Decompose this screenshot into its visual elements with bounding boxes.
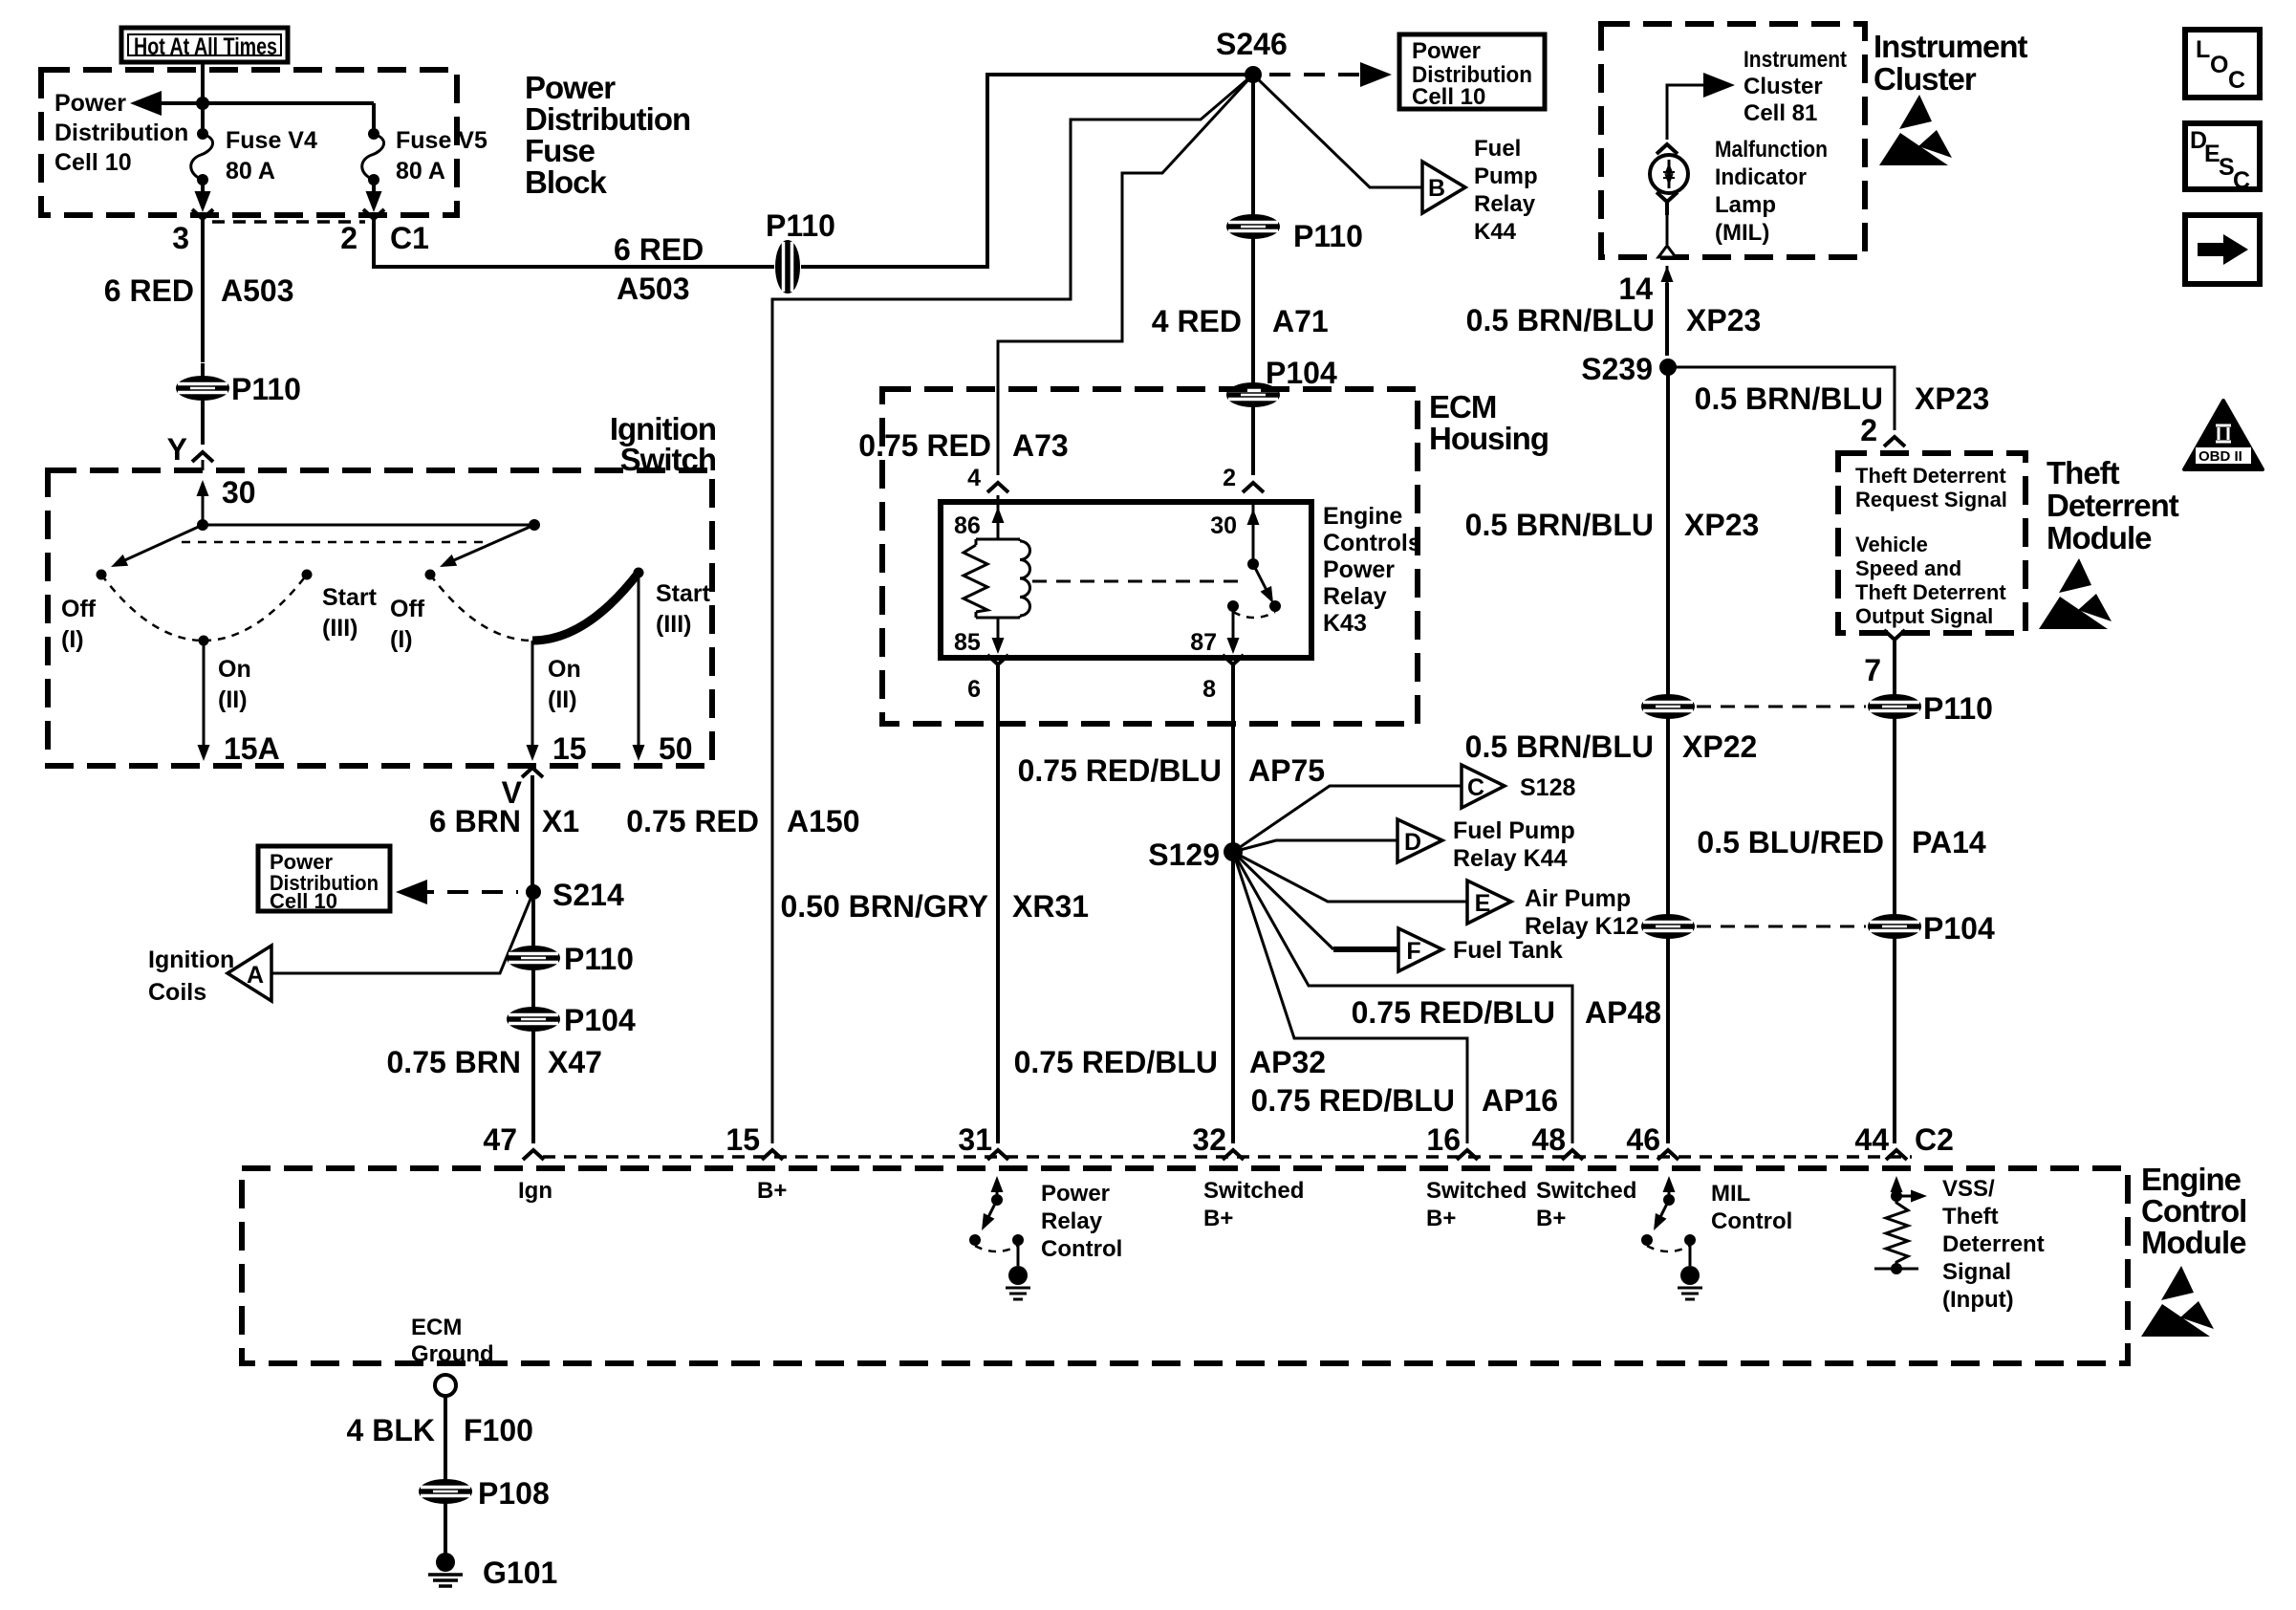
connector below MIL lamp [1657, 192, 1678, 215]
svg-text:Pump: Pump [1474, 163, 1538, 189]
title: ECM Housing [1429, 389, 1549, 456]
Hot At All Times label box [121, 28, 288, 62]
svg-text:Relay: Relay [1041, 1208, 1103, 1234]
svg-text:X47: X47 [548, 1045, 602, 1079]
svg-text:P108: P108 [478, 1476, 550, 1511]
svg-text:31: 31 [958, 1122, 992, 1157]
wire: feed from Hot At All Times into fuse block [201, 62, 205, 103]
svg-text:C1: C1 [390, 221, 429, 255]
switch bank 1 contacts [61, 570, 378, 714]
svg-text:MIL: MIL [1711, 1181, 1750, 1207]
svg-text:ECM: ECM [411, 1315, 462, 1340]
svg-text:Speed and: Speed and [1855, 556, 1961, 580]
connector 3 [192, 209, 213, 232]
svg-text:E: E [1475, 890, 1491, 917]
svg-text:VSS/: VSS/ [1942, 1176, 1995, 1202]
connector pin 6 [987, 655, 1008, 678]
label: Switched B+ (pin 32) [1203, 1178, 1304, 1231]
label: Power Distribution Cell 10 [54, 90, 188, 176]
wire: S129 staircase to ECM pin 16 [1233, 852, 1467, 1143]
svg-text:Hot At All Times: Hot At All Times [134, 33, 277, 60]
wire: down to ECM pin 46 [1666, 938, 1670, 1143]
svg-text:Output Signal: Output Signal [1855, 604, 1993, 628]
title: Instrument Cluster [1874, 29, 2028, 97]
grommet P104 (below S214) [508, 1008, 559, 1031]
svg-text:Theft Deterrent: Theft Deterrent [1855, 464, 2006, 488]
svg-text:P110: P110 [1293, 219, 1363, 253]
svg-text:Cell 81: Cell 81 [1744, 100, 1817, 126]
svg-text:C2: C2 [1915, 1122, 1954, 1157]
svg-text:(I): (I) [390, 626, 413, 653]
connector pin 8 [1223, 655, 1244, 678]
relay coil (resistor + inductor in parallel) [964, 539, 1030, 618]
wire: S129 to triangle E [1233, 852, 1467, 902]
svg-text:0.5 BRN/BLU: 0.5 BRN/BLU [1465, 508, 1654, 542]
label: Switched B+ (pin 48) [1536, 1178, 1636, 1231]
connector V below ignition switch [522, 768, 543, 777]
svg-text:S129: S129 [1148, 838, 1220, 872]
svg-text:Theft: Theft [2047, 455, 2120, 490]
wire: relay pin 8 to ECM pin 32 [1231, 677, 1235, 1143]
svg-text:S214: S214 [552, 878, 624, 912]
svg-text:D: D [1404, 829, 1421, 856]
connector pin 4 [987, 483, 1008, 492]
wire: S239 branch to theft deterrent pin 2 [1668, 367, 1895, 430]
svg-text:Theft: Theft [1942, 1204, 1999, 1229]
triangle B (fuel pump relay K44) [1422, 162, 1465, 213]
svg-text:Module: Module [2047, 520, 2152, 555]
label: Power Relay Control [1041, 1181, 1122, 1262]
svg-text:A73: A73 [1012, 428, 1069, 463]
svg-text:0.75 RED/BLU: 0.75 RED/BLU [1352, 995, 1555, 1030]
svg-text:Off: Off [390, 596, 425, 622]
ESD symbol (ECM) [2141, 1266, 2214, 1337]
svg-text:Housing: Housing [1429, 421, 1549, 456]
wire: S129 staircase to ECM pin 48 [1233, 852, 1572, 1143]
svg-text:AP16: AP16 [1482, 1083, 1558, 1118]
fuse V4 80 A [191, 103, 317, 212]
svg-text:Power: Power [525, 70, 616, 105]
relay K43 box [941, 502, 1311, 658]
svg-text:(MIL): (MIL) [1715, 220, 1769, 246]
connector triangle at cluster box edge [1658, 246, 1676, 257]
relay armature dashed link [1032, 580, 1245, 583]
svg-text:Power: Power [1323, 556, 1395, 583]
svg-text:6 RED: 6 RED [614, 232, 704, 267]
svg-text:B+: B+ [757, 1178, 787, 1204]
grommet P110 (below S214) [508, 946, 559, 969]
svg-text:B+: B+ [1536, 1206, 1566, 1231]
svg-text:On: On [218, 656, 251, 683]
triangle D (fuel pump relay K44) [1397, 819, 1442, 862]
svg-text:6: 6 [967, 676, 981, 703]
svg-text:K43: K43 [1323, 610, 1367, 637]
svg-text:0.75 RED: 0.75 RED [626, 804, 759, 838]
svg-text:Fuse V5: Fuse V5 [396, 127, 487, 154]
svg-text:B+: B+ [1203, 1206, 1233, 1231]
triangle E (air pump relay K12) [1467, 881, 1511, 924]
ECM pin 44 [1886, 1150, 1907, 1160]
svg-text:Power: Power [1412, 38, 1481, 64]
svg-text:Switched: Switched [1536, 1178, 1636, 1204]
ECM pin 46 [1657, 1150, 1679, 1160]
svg-text:Start: Start [656, 580, 711, 607]
svg-text:30: 30 [1210, 512, 1237, 539]
Power Distribution Cell 10 box (right) [1399, 34, 1545, 110]
svg-text:Fuel Tank: Fuel Tank [1453, 937, 1563, 964]
LOC box [2185, 30, 2260, 98]
wire: bus to Power Distribution Cell 10 (left arrow) [136, 101, 374, 105]
svg-text:(Input): (Input) [1942, 1287, 2014, 1313]
wire: S246 staircase to ECM pin 15 (B+) [772, 75, 1253, 1143]
label: Malfunction Indicator Lamp (MIL) [1715, 137, 1828, 246]
svg-text:Ign: Ign [518, 1178, 552, 1204]
svg-text:XR31: XR31 [1012, 889, 1089, 924]
svg-text:ECM: ECM [1429, 389, 1496, 424]
wire: S239 down with label 0.5 BRN/BLU XP23 [1666, 367, 1670, 695]
wire: MIL feed elbow arrow to Instrument Cluster Cell 81 [1667, 85, 1717, 140]
label: Vehicle Speed and Theft Deterrent Output Signal [1855, 533, 2006, 628]
ECM ground terminal circle [435, 1375, 456, 1396]
svg-text:Theft Deterrent: Theft Deterrent [1855, 580, 2006, 604]
svg-text:B+: B+ [1426, 1206, 1456, 1231]
grommet P110 (left drop) [177, 377, 228, 400]
svg-text:A503: A503 [617, 272, 690, 306]
wire: theft module down to P110 [1893, 652, 1896, 695]
ECM pin 32 [1223, 1150, 1244, 1160]
forward arrow box [2185, 215, 2260, 284]
svg-text:0.75 RED/BLU: 0.75 RED/BLU [1018, 753, 1222, 788]
svg-text:Lamp: Lamp [1715, 192, 1776, 218]
wire: pin 14 into cluster [1665, 283, 1669, 356]
svg-text:F: F [1406, 938, 1420, 965]
label: Theft Deterrent Request Signal [1855, 464, 2007, 511]
svg-text:Air Pump: Air Pump [1525, 885, 1631, 912]
ECM pin 16 [1457, 1150, 1478, 1160]
label: Air Pump Relay K12 [1525, 885, 1639, 940]
svg-text:Switched: Switched [1426, 1178, 1527, 1204]
svg-text:B: B [1428, 175, 1445, 202]
svg-text:0.5 BRN/BLU: 0.5 BRN/BLU [1695, 381, 1883, 416]
label: Instrument Cluster Cell 81 [1744, 47, 1847, 126]
svg-text:X1: X1 [542, 804, 579, 838]
Theft Deterrent Module enclosure [1838, 453, 2025, 633]
switch bank 2 contacts [390, 568, 711, 714]
wire: 6 RED A503 from C1 to S246 [374, 75, 1245, 267]
title: Ignition Switch [610, 411, 716, 477]
svg-text:6 BRN: 6 BRN [429, 804, 521, 838]
relay pin 30 lead and switch [1252, 505, 1255, 564]
svg-text:0.75 RED: 0.75 RED [858, 428, 991, 463]
svg-text:Relay K44: Relay K44 [1453, 845, 1568, 872]
svg-text:Control: Control [1041, 1236, 1122, 1262]
svg-text:4 RED: 4 RED [1152, 304, 1242, 338]
wire: S129 to triangle F [1233, 852, 1333, 949]
svg-text:86: 86 [954, 512, 981, 539]
svg-text:K44: K44 [1474, 219, 1517, 245]
svg-text:XP23: XP23 [1915, 381, 1989, 416]
svg-text:Instrument: Instrument [1874, 29, 2028, 64]
svg-text:15: 15 [552, 731, 587, 766]
title: Theft Deterrent Module [2047, 455, 2179, 555]
svg-text:Relay: Relay [1474, 191, 1536, 217]
svg-text:(III): (III) [322, 615, 358, 642]
svg-text:Deterrent: Deterrent [1942, 1231, 2045, 1257]
svg-text:Power: Power [54, 90, 126, 117]
svg-text:80 A: 80 A [226, 158, 275, 185]
svg-text:44: 44 [1854, 1122, 1889, 1157]
svg-text:0.75 RED/BLU: 0.75 RED/BLU [1251, 1083, 1455, 1118]
svg-text:0.50 BRN/GRY: 0.50 BRN/GRY [780, 889, 988, 924]
label: VSS/ Theft Deterrent Signal (Input) [1942, 1176, 2045, 1313]
wire: S246 staircase to relay pin 4 [998, 75, 1253, 475]
relay pin 87 lead [1232, 606, 1235, 650]
svg-text:0.75 BRN: 0.75 BRN [387, 1045, 522, 1079]
Power Distribution Fuse Block enclosure [41, 70, 457, 215]
svg-text:Malfunction: Malfunction [1715, 137, 1828, 163]
svg-text:Start: Start [322, 584, 378, 611]
svg-text:4: 4 [967, 465, 981, 491]
svg-text:15: 15 [726, 1122, 760, 1157]
svg-text:Fuse V4: Fuse V4 [226, 127, 317, 154]
power relay control switch [969, 1176, 1030, 1299]
svg-text:Module: Module [2141, 1225, 2246, 1260]
wire: bank2 On to terminal 15 [531, 641, 534, 755]
connector Y into ignition switch [192, 452, 213, 462]
svg-text:P110: P110 [564, 942, 634, 976]
switch bank 2 rotor arrow [447, 525, 534, 563]
svg-text:A: A [247, 962, 264, 989]
svg-text:P104: P104 [564, 1003, 636, 1037]
svg-text:XP23: XP23 [1686, 303, 1761, 337]
svg-text:4 BLK: 4 BLK [347, 1413, 435, 1447]
svg-text:AP48: AP48 [1585, 995, 1661, 1030]
svg-text:Cell 10: Cell 10 [54, 149, 132, 176]
wire: switch common bar [203, 524, 534, 527]
relay pin 86 lead [997, 495, 1000, 539]
relay pin 85 lead [997, 618, 1000, 650]
VSS theft deterrent input resistor [1874, 1176, 1927, 1274]
svg-text:50: 50 [659, 731, 693, 766]
DESC box [2185, 123, 2260, 194]
dashed arrow S246 to Power Distribution Cell 10 [1269, 73, 1369, 76]
svg-text:Coils: Coils [148, 979, 206, 1006]
grommet P104 (main drop, at ECM housing edge) [1227, 383, 1279, 406]
svg-text:0.5 BRN/BLU: 0.5 BRN/BLU [1465, 729, 1654, 764]
svg-text:P110: P110 [766, 208, 835, 243]
MIL control switch [1641, 1176, 1702, 1299]
ECM pin 31 [987, 1150, 1008, 1160]
svg-text:Cell 10: Cell 10 [1412, 84, 1485, 110]
svg-text:On: On [548, 656, 581, 683]
wire: S246 to fuel pump relay triangle B [1253, 75, 1422, 187]
svg-text:6 RED: 6 RED [104, 273, 194, 308]
wire label 0.5 BLU/RED PA14 [1893, 718, 1896, 915]
svg-text:Block: Block [525, 164, 608, 200]
svg-text:C: C [1467, 774, 1484, 801]
svg-text:Control: Control [2141, 1193, 2246, 1229]
node: bus junction dot [196, 97, 209, 110]
svg-text:S128: S128 [1520, 774, 1575, 801]
svg-text:P104: P104 [1923, 911, 1995, 946]
svg-text:Control: Control [1711, 1208, 1792, 1234]
svg-text:Cluster: Cluster [1874, 61, 1977, 97]
grommet P110 (main drop) [1227, 215, 1279, 238]
svg-text:Fuel: Fuel [1474, 136, 1521, 162]
svg-text:46: 46 [1626, 1122, 1660, 1157]
wire: P108 to G101 [444, 1503, 447, 1555]
wire: 4 BLK F100 [444, 1396, 447, 1480]
svg-text:Relay K12: Relay K12 [1525, 913, 1639, 940]
title: Engine Control Module [2141, 1162, 2246, 1260]
grommet P110 (on A503 run) [776, 241, 799, 293]
ECM Housing enclosure [882, 389, 1418, 724]
svg-text:Switched: Switched [1203, 1178, 1304, 1204]
dashed linkage between switch banks [182, 541, 483, 544]
Engine Control Module enclosure [242, 1168, 2128, 1363]
dashed arrow S214 to Power Distribution Cell 10 [413, 890, 518, 894]
node S239 [1659, 359, 1677, 376]
svg-text:80 A: 80 A [396, 158, 445, 185]
triangle A (ignition coils) [227, 946, 271, 1001]
svg-text:(I): (I) [61, 626, 84, 653]
svg-text:XP23: XP23 [1684, 508, 1759, 542]
svg-text:0.5 BLU/RED: 0.5 BLU/RED [1697, 825, 1884, 859]
node S246 [1245, 66, 1262, 83]
svg-text:Fuel Pump: Fuel Pump [1453, 817, 1575, 844]
svg-text:8: 8 [1202, 676, 1216, 703]
svg-text:A71: A71 [1272, 304, 1329, 338]
label: ECM Ground [411, 1315, 494, 1367]
wire: S214 to ignition coils elbow [271, 892, 533, 973]
svg-text:48: 48 [1531, 1122, 1566, 1157]
svg-text:Switch: Switch [620, 442, 716, 477]
svg-text:Cell 10: Cell 10 [270, 889, 337, 913]
ESD symbol (theft deterrent module) [2039, 558, 2112, 629]
label: Engine Controls Power Relay K43 [1323, 503, 1421, 637]
svg-text:Off: Off [61, 596, 97, 622]
Power Distribution Cell 10 box (left) [258, 846, 390, 913]
svg-text:Signal: Signal [1942, 1259, 2011, 1285]
svg-text:0.5 BRN/BLU: 0.5 BRN/BLU [1466, 303, 1655, 337]
grommet P104 (right pair) [1869, 915, 1920, 938]
svg-text:3: 3 [172, 221, 189, 255]
connector pin 2 [1243, 483, 1264, 492]
svg-text:Distribution: Distribution [525, 101, 690, 137]
svg-text:16: 16 [1426, 1122, 1461, 1157]
fuse V5 80 A [362, 103, 487, 212]
svg-text:87: 87 [1190, 629, 1217, 656]
wire: S246 main drop 4 RED A71 [1251, 75, 1255, 475]
wire: down to ECM pin 44 [1893, 938, 1896, 1143]
wire: S129 to triangle C [1233, 786, 1462, 852]
svg-text:(II): (II) [548, 686, 577, 713]
label: Ignition Coils [148, 946, 234, 1006]
svg-text:Cluster: Cluster [1744, 74, 1823, 99]
triangle F (fuel tank) [1398, 928, 1442, 971]
svg-text:Fuse: Fuse [525, 133, 596, 168]
svg-text:Vehicle: Vehicle [1855, 533, 1928, 556]
svg-text:C: C [2233, 167, 2250, 194]
svg-text:(III): (III) [656, 611, 692, 638]
ECM connector row [543, 1155, 1912, 1159]
ignition switch terminal 30 [202, 483, 205, 525]
label: Fuel Pump Relay K44 (D) [1453, 817, 1575, 872]
svg-text:(II): (II) [218, 686, 248, 713]
svg-text:A503: A503 [221, 273, 294, 308]
wire: 6 RED A503 (left drop) [201, 231, 205, 362]
svg-text:32: 32 [1192, 1122, 1226, 1157]
svg-text:AP32: AP32 [1249, 1045, 1326, 1079]
wire label 0.5 BRN/BLU XP22 [1666, 718, 1670, 915]
svg-text:Request Signal: Request Signal [1855, 488, 2007, 511]
connector pin 7 below theft module [1884, 630, 1905, 653]
svg-text:XP22: XP22 [1682, 729, 1757, 764]
label: Fuel Pump Relay K44 (B) [1474, 136, 1538, 245]
svg-text:47: 47 [483, 1122, 517, 1157]
label: MIL Control [1711, 1181, 1792, 1234]
MIL lamp [1650, 155, 1688, 193]
svg-text:15A: 15A [224, 731, 280, 766]
wire: 6 BRN X1 [531, 775, 534, 892]
svg-text:2: 2 [1223, 465, 1236, 491]
svg-text:2: 2 [1860, 413, 1877, 447]
svg-text:Engine: Engine [2141, 1162, 2242, 1197]
svg-text:Engine: Engine [1323, 503, 1402, 530]
svg-text:G101: G101 [483, 1556, 557, 1590]
Ignition Switch enclosure [48, 470, 712, 766]
switch bank 1 rotor arrow [119, 525, 203, 563]
svg-text:P104: P104 [1266, 356, 1337, 390]
svg-text:AP75: AP75 [1248, 753, 1325, 788]
connector 2 C1 [363, 209, 384, 232]
svg-text:0.75 RED/BLU: 0.75 RED/BLU [1014, 1045, 1218, 1079]
svg-text:Y: Y [167, 432, 187, 467]
svg-text:Relay: Relay [1323, 583, 1387, 610]
Instrument Cluster enclosure [1601, 24, 1865, 257]
svg-text:P110: P110 [231, 372, 301, 406]
svg-text:OBD II: OBD II [2199, 448, 2242, 465]
OBD II symbol [2184, 401, 2263, 469]
title: Power Distribution Fuse Block [525, 70, 690, 200]
label: Switched B+ (pin 16) [1426, 1178, 1527, 1231]
svg-text:Ignition: Ignition [148, 946, 234, 973]
ECM pin 15 [762, 1150, 783, 1160]
grommet P108 [420, 1480, 471, 1503]
ESD symbol (instrument cluster) [1879, 95, 1952, 165]
svg-text:Power: Power [1041, 1181, 1110, 1207]
svg-text:P110: P110 [1923, 691, 1993, 726]
wire: relay pin 6 to ECM pin 31 [996, 677, 1000, 1143]
svg-text:S246: S246 [1216, 27, 1288, 61]
svg-text:F100: F100 [464, 1413, 533, 1447]
ECM pin 47 [523, 1150, 544, 1160]
grommet P110 (right pair) [1869, 695, 1920, 718]
wire: bank1 On to 15A [203, 641, 206, 755]
svg-text:Controls: Controls [1323, 530, 1421, 556]
svg-text:L: L [2196, 36, 2210, 63]
node S129 [1224, 842, 1243, 861]
svg-text:Ground: Ground [411, 1341, 494, 1367]
svg-text:30: 30 [222, 475, 256, 510]
svg-text:PA14: PA14 [1912, 825, 1986, 859]
svg-text:2: 2 [340, 221, 357, 255]
svg-text:Distribution: Distribution [54, 120, 188, 146]
svg-text:O: O [2210, 52, 2228, 78]
svg-text:C: C [2228, 67, 2245, 94]
svg-text:14: 14 [1618, 272, 1653, 306]
svg-text:A150: A150 [787, 804, 860, 838]
